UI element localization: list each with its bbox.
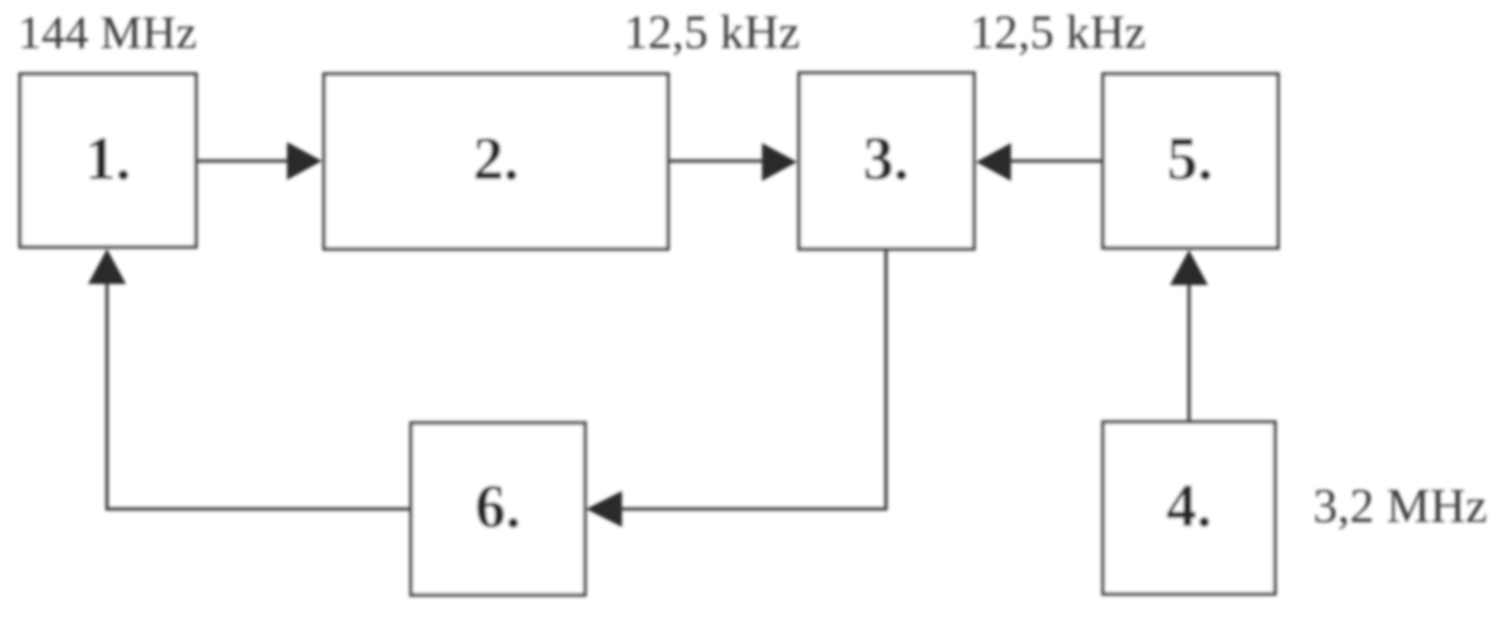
block 2 (divider): [324, 74, 668, 249]
svg-text:144 MHz: 144 MHz: [18, 7, 197, 59]
block 3 (phase comparator): [799, 73, 974, 249]
svg-text:1.: 1.: [85, 126, 131, 193]
wire 2 to 3: [668, 159, 765, 163]
arrowhead into block 2: [287, 142, 322, 180]
svg-text:6.: 6.: [475, 474, 521, 541]
wire 4 to 5: [1187, 284, 1191, 422]
svg-text:3,2 MHz: 3,2 MHz: [1313, 478, 1487, 533]
arrowhead into block 5 bottom: [1170, 250, 1208, 285]
block 6 (loop filter): [411, 423, 585, 595]
wire up to 1: [105, 283, 109, 511]
svg-text:5.: 5.: [1167, 126, 1213, 193]
wire 5 to 3: [1008, 159, 1103, 163]
svg-text:12,5 kHz: 12,5 kHz: [624, 6, 800, 59]
svg-text:12,5 kHz: 12,5 kHz: [970, 6, 1146, 59]
wire 1 to 2: [196, 159, 290, 163]
svg-text:4.: 4.: [1166, 473, 1212, 540]
wire 3 down: [884, 249, 888, 509]
block 4 (3,2 MHz crystal oscillator): [1103, 422, 1275, 594]
arrowhead into block 3 right: [976, 143, 1011, 181]
arrowhead into block 3 left: [762, 143, 797, 181]
block 5 (reference divider): [1103, 74, 1278, 248]
arrowhead into block 1 bottom: [88, 249, 126, 284]
svg-text:3.: 3.: [863, 126, 909, 193]
svg-text:2.: 2.: [473, 126, 519, 193]
wire 6 to left: [106, 507, 412, 511]
block 1 (144 MHz oscillator): [20, 74, 196, 247]
arrowhead into block 6 right: [586, 491, 622, 527]
wire 3 to 6 horizontal: [620, 507, 888, 511]
